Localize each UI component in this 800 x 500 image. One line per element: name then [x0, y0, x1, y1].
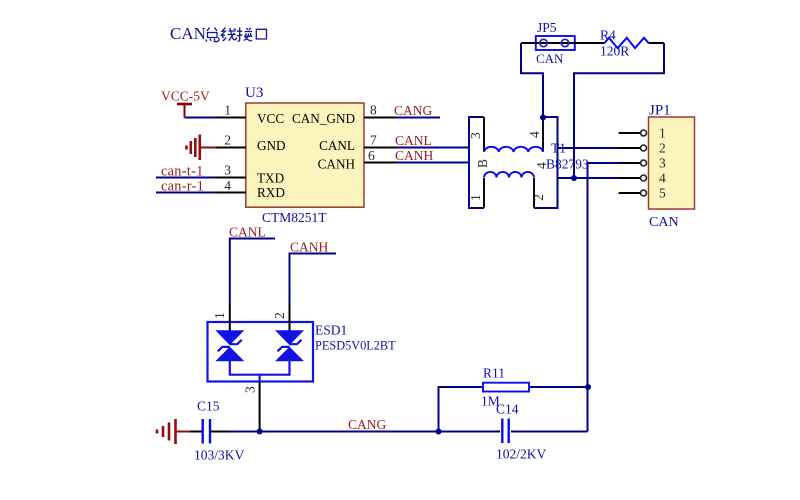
svg-text:ESD1: ESD1: [315, 323, 347, 338]
svg-text:JP5: JP5: [537, 20, 557, 35]
svg-text:120R: 120R: [600, 44, 629, 59]
svg-text:4: 4: [659, 171, 666, 186]
svg-text:4: 4: [224, 178, 231, 193]
svg-text:2: 2: [659, 141, 666, 156]
svg-text:R11: R11: [483, 366, 505, 381]
svg-text:4: 4: [527, 131, 542, 138]
svg-text:3: 3: [468, 132, 483, 139]
svg-text:CANH: CANH: [318, 156, 356, 171]
svg-text:RXD: RXD: [257, 185, 285, 200]
svg-text:CAN: CAN: [649, 215, 679, 230]
svg-text:CTM8251T: CTM8251T: [262, 210, 327, 225]
svg-text:GND: GND: [257, 138, 286, 153]
svg-text:3: 3: [243, 386, 258, 393]
svg-text:5: 5: [659, 186, 666, 201]
svg-text:CANG: CANG: [348, 417, 387, 432]
svg-text:CANH: CANH: [290, 240, 329, 255]
svg-text:CAN: CAN: [170, 24, 206, 43]
svg-text:3: 3: [224, 163, 231, 178]
svg-text:7: 7: [370, 133, 377, 148]
svg-text:1: 1: [224, 103, 231, 118]
svg-text:C15: C15: [197, 399, 220, 414]
svg-text:1: 1: [468, 194, 483, 201]
svg-text:B: B: [475, 159, 490, 168]
svg-text:3: 3: [659, 156, 666, 171]
svg-text:B82793: B82793: [546, 157, 589, 172]
svg-text:R4: R4: [600, 28, 616, 43]
svg-text:U3: U3: [245, 85, 263, 101]
svg-text:PESD5V0L2BT: PESD5V0L2BT: [315, 339, 396, 353]
svg-text:CANH: CANH: [395, 148, 434, 163]
svg-text:CAN_GND: CAN_GND: [292, 111, 355, 126]
svg-text:6: 6: [368, 148, 375, 163]
svg-text:CANL: CANL: [229, 225, 266, 240]
svg-text:1: 1: [212, 312, 227, 319]
svg-text:2: 2: [531, 194, 546, 201]
svg-text:JP1: JP1: [649, 103, 671, 119]
svg-text:2: 2: [272, 312, 287, 319]
svg-text:CANG: CANG: [394, 103, 433, 118]
svg-text:1M: 1M: [481, 394, 500, 409]
svg-text:102/2KV: 102/2KV: [496, 447, 547, 462]
svg-text:CANL: CANL: [319, 138, 355, 153]
svg-text:VCC-5V: VCC-5V: [161, 89, 210, 104]
svg-text:CAN: CAN: [536, 51, 564, 66]
svg-text:2: 2: [224, 133, 231, 148]
svg-text:CANL: CANL: [395, 133, 432, 148]
svg-text:8: 8: [370, 103, 377, 118]
svg-text:TXD: TXD: [257, 170, 284, 185]
svg-text:VCC: VCC: [257, 111, 284, 126]
svg-text:1: 1: [659, 126, 666, 141]
svg-text:103/3KV: 103/3KV: [194, 448, 245, 463]
